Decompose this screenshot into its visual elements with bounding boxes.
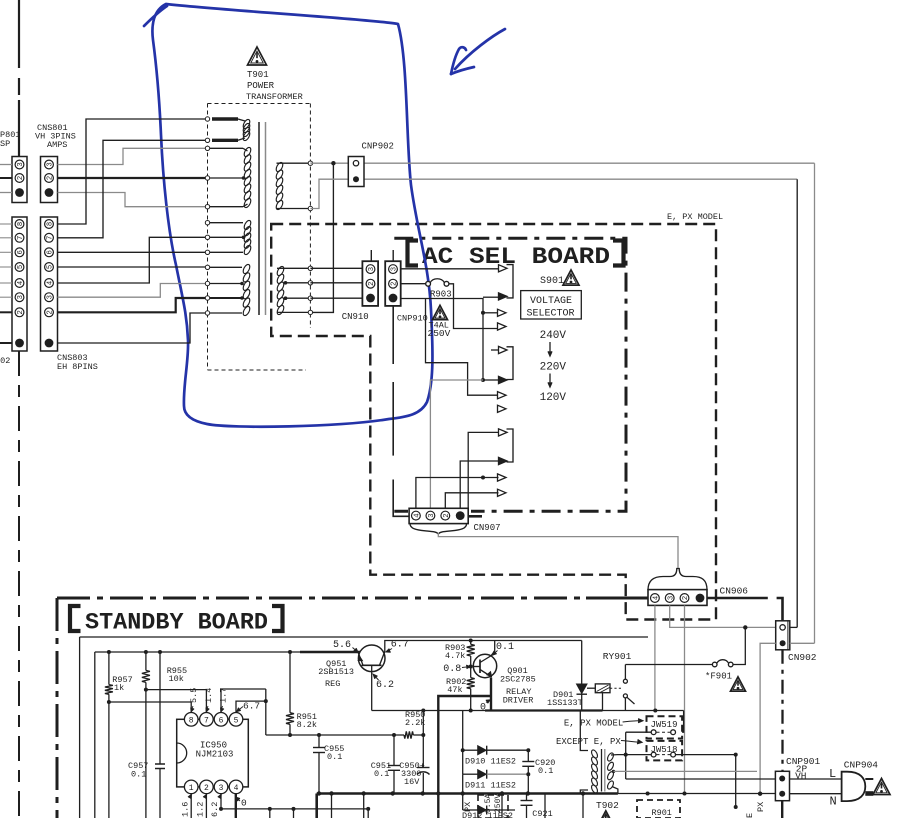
svg-text:4: 4 — [47, 281, 55, 285]
svg-text:2SB1513: 2SB1513 — [318, 667, 354, 677]
VOLTAGE SELECTOR box — [521, 291, 582, 319]
transformer T901 dashed outline — [208, 103, 311, 105]
wire T902 right bottom to bus — [612, 787, 618, 794]
relay coil drop — [602, 693, 604, 711]
wire staircase to selector g2 t3 — [426, 299, 499, 396]
svg-text:2: 2 — [682, 596, 690, 600]
selector group3 — [507, 429, 514, 462]
wire CNS803-6 to T901 — [58, 251, 208, 253]
dashed box fuse 0.5A 250V — [478, 795, 508, 818]
svg-text:S901: S901 — [540, 276, 564, 287]
wire F901 to CN902 node — [733, 627, 745, 664]
IC950 NJM2103 — [177, 719, 249, 787]
svg-text:1.2: 1.2 — [196, 802, 206, 817]
svg-text:CNP904: CNP904 — [844, 760, 879, 771]
svg-text:STANDBY BOARD: STANDBY BOARD — [85, 610, 268, 636]
svg-text:0.1: 0.1 — [538, 766, 553, 776]
svg-text:E: E — [745, 813, 755, 818]
wire T902 tap gray right — [614, 770, 758, 772]
connector CN910 — [362, 261, 378, 306]
blue pen loop start tail — [144, 6, 167, 26]
connector CNP910 — [392, 250, 394, 261]
svg-text:7: 7 — [47, 236, 55, 240]
connector CN910 stem — [370, 250, 372, 261]
svg-text:802: 802 — [0, 356, 10, 366]
diodes D910 D911 — [462, 711, 464, 775]
svg-text:POWER: POWER — [247, 81, 275, 91]
transistor Q901 — [473, 654, 496, 677]
T901 winding 3 — [208, 222, 244, 224]
wire from JW518 node down — [735, 755, 737, 807]
svg-text:3: 3 — [47, 295, 55, 299]
svg-text:1: 1 — [189, 784, 194, 793]
svg-text:240V: 240V — [540, 330, 567, 342]
svg-text:L: L — [829, 767, 836, 781]
svg-text:3: 3 — [17, 295, 25, 299]
wire relay contact down — [624, 698, 626, 711]
wire CNS801-2 to T901 — [58, 177, 208, 179]
svg-text:0.1: 0.1 — [496, 642, 514, 653]
bottom bus heavy — [317, 792, 618, 795]
svg-text:7: 7 — [17, 236, 25, 240]
wire CN906-3 down to CN902 pin1 — [670, 605, 776, 627]
transformer T901 core — [258, 122, 260, 315]
svg-text:AMPS: AMPS — [47, 140, 67, 150]
svg-text:CN910: CN910 — [342, 312, 369, 322]
wire T902 left bottom to bus — [580, 790, 588, 794]
wire CN907 heavy stub right — [469, 515, 482, 518]
node selector feeds — [481, 311, 485, 315]
svg-text:2: 2 — [17, 310, 25, 314]
wire CNS803-3 to T901 — [58, 284, 208, 298]
svg-text:120V: 120V — [540, 392, 567, 404]
IC950 pin wires top — [109, 702, 191, 713]
svg-text:1.7: 1.7 — [219, 688, 229, 703]
svg-text:3: 3 — [219, 784, 224, 793]
svg-text:E, PX MODEL: E, PX MODEL — [564, 719, 623, 729]
selector group2 — [507, 347, 514, 380]
wires T901 to CN910 — [310, 267, 362, 269]
svg-text:AC SEL BOARD: AC SEL BOARD — [422, 244, 610, 270]
svg-text:1SS133T: 1SS133T — [547, 698, 583, 708]
svg-text:E, PX MODEL: E, PX MODEL — [667, 212, 723, 222]
wire CNS801-1 to T901 — [58, 193, 208, 207]
diode D912 partial — [462, 774, 464, 810]
wire CNP902 pin2 down right side — [796, 179, 798, 627]
svg-text:EH 8PINS: EH 8PINS — [57, 362, 98, 372]
svg-text:6.7: 6.7 — [243, 701, 260, 712]
svg-text:10k: 10k — [169, 674, 184, 684]
svg-text:47k: 47k — [447, 685, 462, 695]
capacitor C920 — [527, 750, 529, 761]
svg-text:CN902: CN902 — [788, 652, 817, 663]
selector g2 t1 stub — [491, 349, 499, 351]
connector CN902 — [776, 621, 790, 650]
svg-text:5.6: 5.6 — [333, 640, 351, 651]
svg-text:0.8: 0.8 — [443, 664, 461, 675]
STANDBY BOARD border top edge — [57, 597, 586, 600]
transformer T901 warning — [248, 47, 267, 65]
wire JW519 left down — [625, 732, 627, 779]
svg-text:JW519: JW519 — [650, 720, 677, 730]
svg-text:D910 11ES2: D910 11ES2 — [465, 757, 516, 767]
svg-text:CN907: CN907 — [474, 523, 501, 533]
svg-text:8.2k: 8.2k — [297, 720, 317, 730]
T901 winding 2 — [208, 147, 244, 149]
transformer T902 — [601, 749, 603, 792]
wire CN907 to CN906 — [438, 533, 678, 569]
svg-text:4: 4 — [653, 596, 661, 600]
jumper JW518 — [647, 741, 683, 761]
wire CN907-1 to selector g3 t2 — [460, 461, 498, 508]
wire chain line below connectors — [18, 351, 20, 818]
connector CNP801 (partial, left edge) — [12, 157, 27, 203]
svg-text:T902: T902 — [596, 800, 619, 811]
svg-text:VOLTAGE: VOLTAGE — [530, 296, 572, 307]
T901 secondary winding upper right — [277, 162, 311, 164]
svg-text:5: 5 — [234, 716, 239, 725]
AC SEL BOARD title — [408, 241, 419, 266]
blue pen loop annotation — [152, 4, 432, 427]
svg-text:8: 8 — [189, 716, 194, 725]
svg-text:EXCEPT E, PX: EXCEPT E, PX — [556, 737, 621, 747]
STANDBY BOARD title — [70, 606, 81, 631]
wire CNP902 pin1 down right side — [814, 163, 816, 643]
wire CN907-4 to node — [416, 478, 499, 509]
wire left vertical bus with break — [18, 0, 20, 68]
T901 left terminals — [205, 117, 209, 121]
wire stubs into CNP801 — [0, 164, 12, 166]
lower joining line — [221, 808, 368, 810]
wire R903 out to selector t4 — [449, 284, 499, 329]
svg-text:250V: 250V — [428, 328, 451, 339]
N line bus to CNP901 — [618, 793, 776, 795]
svg-text:6.2: 6.2 — [210, 802, 220, 817]
svg-text:0.1: 0.1 — [374, 769, 389, 779]
wire CN906-4 down — [654, 605, 656, 710]
wire CNP910-3 to selector — [401, 268, 499, 270]
connector CNP901 — [775, 771, 789, 800]
rail relay output y710 — [372, 710, 485, 712]
svg-text:6.2: 6.2 — [376, 680, 394, 691]
wire CN906-2 down to bus — [684, 605, 686, 793]
wire relay common up to fuse line — [624, 665, 626, 680]
IC950 pin wires bottom — [190, 794, 192, 818]
svg-text:6: 6 — [47, 250, 55, 254]
svg-text:TRANSFORMER: TRANSFORMER — [246, 92, 303, 102]
svg-text:0.1: 0.1 — [327, 752, 342, 762]
svg-text:2: 2 — [47, 310, 55, 314]
T901 winding 4 taps — [208, 283, 242, 285]
svg-text:250V: 250V — [494, 794, 503, 813]
svg-text:NJM2103: NJM2103 — [196, 750, 234, 760]
wire CNS801-3 to T901 — [58, 148, 208, 164]
connector CNS803 EH 8PINS — [41, 217, 58, 351]
L line to CNP901 — [626, 778, 842, 780]
svg-text:16V: 16V — [404, 777, 420, 787]
rail y735 — [266, 734, 404, 736]
T901 winding 4 — [208, 266, 243, 268]
resistor R957 — [108, 652, 110, 685]
svg-text:SELECTOR: SELECTOR — [526, 309, 574, 320]
svg-text:2SC2785: 2SC2785 — [500, 675, 536, 685]
svg-text:3: 3 — [391, 267, 399, 271]
capacitor C955 — [318, 735, 320, 748]
svg-text:3: 3 — [428, 513, 436, 517]
T901 right terminals — [308, 161, 312, 165]
svg-text:4: 4 — [17, 281, 25, 285]
svg-text:CNP902: CNP902 — [362, 142, 394, 152]
jumper JW519 — [647, 716, 683, 738]
svg-text:C921: C921 — [532, 809, 552, 818]
blue pen arrow — [455, 29, 505, 69]
svg-text:7: 7 — [204, 716, 209, 725]
svg-text:8: 8 — [47, 222, 55, 226]
AC SEL BOARD border — [394, 238, 626, 511]
svg-text:*F901: *F901 — [705, 672, 732, 682]
connector CN906 housing — [648, 569, 707, 591]
svg-text:2: 2 — [47, 176, 55, 180]
svg-text:2: 2 — [443, 513, 451, 517]
wire CNS803-5 to T901 — [58, 266, 208, 268]
connector CNS802 (partial, left edge) — [12, 217, 27, 351]
wire CN902 pin2 right to gray riser — [790, 642, 815, 644]
svg-text:4.7k: 4.7k — [445, 651, 465, 661]
node fuse junction — [743, 625, 747, 629]
svg-text:0: 0 — [241, 798, 247, 809]
svg-text:0.5A: 0.5A — [484, 794, 493, 813]
fuse F901 — [625, 664, 712, 666]
wire T902 left top — [580, 711, 588, 751]
STANDBY BOARD inner boundary — [80, 636, 648, 638]
wire CNS803-8 to T901 — [58, 119, 208, 224]
wire CNP910-1 down to CN907-4 — [392, 306, 394, 364]
svg-text:2: 2 — [368, 282, 376, 286]
wire CNS803-2 to T901 — [58, 298, 208, 312]
wire T901 to CNP902 pin1 and right edge — [310, 162, 814, 164]
wire CN907 right side to selector g3 t1 — [468, 432, 498, 508]
Q901 emitter heavy path — [490, 678, 492, 711]
wire CN907-2 to selector g3 t4 — [445, 493, 498, 508]
diode D901 — [581, 641, 583, 685]
wire CNS803-1 to T901 — [58, 313, 208, 343]
svg-text:5: 5 — [17, 265, 25, 269]
svg-text:1k: 1k — [114, 683, 124, 693]
svg-text:SP: SP — [0, 139, 10, 149]
wire CN902 pin2 left down — [760, 643, 776, 793]
svg-text:2.2k: 2.2k — [405, 718, 425, 728]
svg-text:REG: REG — [325, 679, 340, 689]
Q951 collector wire — [371, 665, 373, 710]
svg-text:R901: R901 — [652, 808, 672, 818]
connector CN907 — [409, 508, 468, 523]
node mains junction — [331, 161, 335, 165]
wire CN902 to CNP901 dashed mains — [781, 650, 783, 772]
wire CN907-3 up to 220V node — [430, 380, 483, 516]
svg-text:6: 6 — [219, 716, 224, 725]
svg-text:5: 5 — [47, 265, 55, 269]
wire T901 to CNP902 pin2 and right edge — [310, 179, 797, 208]
svg-text:N: N — [830, 795, 837, 809]
capacitor C921 partial — [526, 794, 528, 801]
svg-text:1.6: 1.6 — [181, 802, 191, 817]
wire CN902 pin1 right to black riser — [790, 626, 797, 628]
svg-text:3: 3 — [47, 162, 55, 166]
svg-text:PX: PX — [756, 802, 766, 812]
resistor R951 — [289, 652, 291, 713]
svg-text:DRIVER: DRIVER — [503, 696, 534, 706]
svg-text:2: 2 — [391, 282, 399, 286]
T901 primary winding 1 (shield bars) — [212, 117, 238, 120]
selector group1 — [507, 265, 514, 298]
dashed box E PX MODEL region — [271, 224, 716, 620]
svg-text:2: 2 — [204, 784, 209, 793]
svg-text:CNP910: CNP910 — [397, 314, 428, 324]
svg-text:CN906: CN906 — [720, 586, 749, 597]
svg-text:2: 2 — [17, 176, 25, 180]
T901 lower right winding taps — [285, 282, 310, 284]
svg-text:0: 0 — [480, 703, 486, 714]
connector CNS801 VH 3PINS AMPS — [41, 157, 58, 203]
svg-text:PX: PX — [463, 802, 473, 812]
T901 secondary winding lower right — [277, 267, 310, 269]
svg-text:220V: 220V — [540, 362, 567, 374]
resistors R903 R902 column — [470, 641, 472, 645]
svg-text:T901: T901 — [247, 70, 269, 80]
capacitor C950 electrolytic — [422, 735, 424, 768]
T901 winding 2 tap — [208, 177, 243, 179]
connector CNP902 — [348, 157, 364, 187]
wire down to JW519 right pin — [676, 711, 684, 733]
left verticals to bottom — [94, 652, 96, 818]
wire CNS803-7 to T901 — [58, 140, 208, 238]
capacitor C951 — [393, 735, 395, 766]
svg-text:3: 3 — [17, 162, 25, 166]
wire CNS803-4 to T901 — [58, 237, 208, 283]
rail top bus y652 — [95, 651, 300, 653]
svg-text:RY901: RY901 — [603, 651, 632, 662]
svg-text:3: 3 — [667, 596, 675, 600]
svg-text:8: 8 — [17, 222, 25, 226]
wire T902 right top to JW518 row — [611, 754, 626, 756]
svg-text:4: 4 — [414, 513, 422, 517]
wire mains down to T901 terminal 4 — [313, 163, 334, 312]
wire CN906-1 heavy to CN902 — [707, 597, 768, 600]
svg-text:4: 4 — [234, 784, 239, 793]
dashed box R901 — [637, 800, 680, 818]
resistor R955 — [145, 652, 147, 670]
svg-text:D911 11ES2: D911 11ES2 — [465, 781, 516, 791]
transistor Q951 — [358, 645, 385, 672]
fuse R903 — [401, 283, 426, 285]
T901 winding 3 tap — [208, 236, 243, 238]
STANDBY BOARD border left edge — [56, 598, 59, 818]
svg-text:VH: VH — [795, 771, 806, 782]
svg-text:6: 6 — [17, 250, 25, 254]
wire CNP910-1 to selector column — [401, 299, 483, 381]
bus drop wires — [331, 794, 333, 819]
svg-text:3: 3 — [368, 267, 376, 271]
svg-text:0.1: 0.1 — [131, 770, 146, 780]
